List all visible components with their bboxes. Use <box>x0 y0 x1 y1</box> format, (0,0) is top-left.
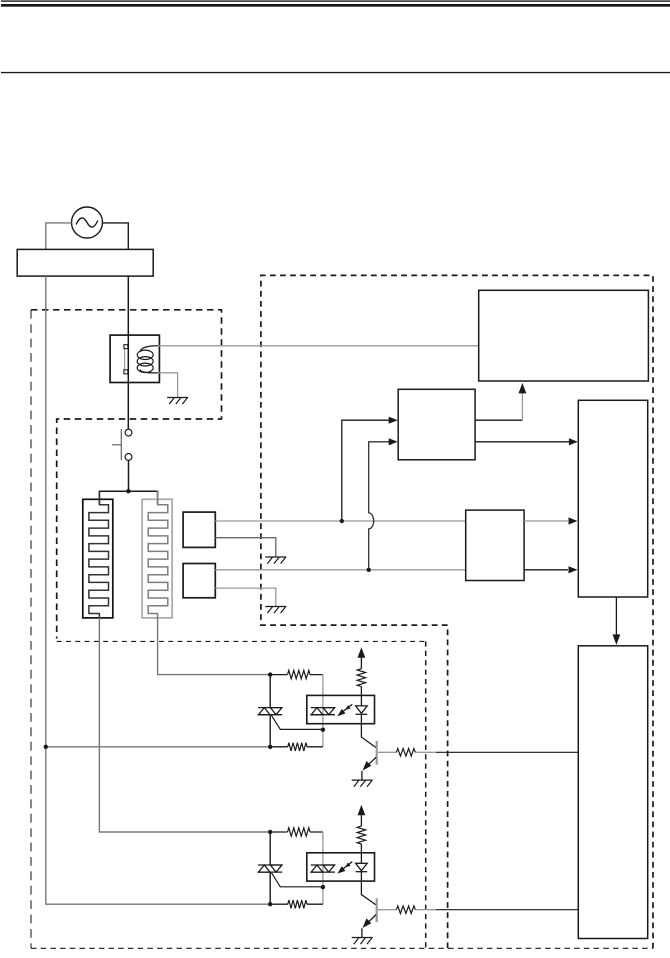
wire ADC out 2 <box>524 569 568 571</box>
optocoupler photo-triac (driver 1) <box>310 708 335 715</box>
ground TH1 <box>265 557 286 564</box>
wire ADC out 1 <box>524 520 568 522</box>
arrow ADC out 2 <box>569 566 578 573</box>
wire base to driver IC (driver 2) <box>436 909 578 911</box>
junction gate node (driver 2) <box>321 885 325 889</box>
dashed box: outer left edge <box>30 310 32 949</box>
arrow into comparator upper <box>389 417 398 424</box>
switch SW1 <box>112 429 132 460</box>
wire triac gate (driver 1) <box>272 715 323 729</box>
wire triac gate (driver 2) <box>272 873 323 887</box>
page header thick rule <box>1 4 670 7</box>
wire to gate resistor (driver 2) <box>270 831 323 833</box>
optocoupler LED (driver 1) <box>356 706 368 724</box>
optocoupler light arrows (driver 2) <box>337 862 352 874</box>
supply arrow (V+) (driver 2) <box>358 805 366 816</box>
ground relay coil <box>167 398 188 405</box>
wire TH2 signal <box>215 569 465 571</box>
transistor emitter (driver 1) <box>367 757 377 766</box>
dashed box: driver section top edge <box>57 640 426 642</box>
block: CPU <box>578 400 647 597</box>
wire comparator to power supply <box>475 419 522 421</box>
wire heater feed <box>99 491 157 504</box>
transistor Q2 base bar (driver 2) <box>376 898 378 922</box>
block: power supply unit <box>479 290 649 381</box>
junction TH2 branch <box>367 568 371 572</box>
resistor R24 (driver 2) <box>396 906 415 914</box>
junction triac bottom (driver 2) <box>268 902 272 906</box>
wire TH1 branch to comparator <box>342 420 389 521</box>
junction heater feed <box>126 489 130 493</box>
wire TH2 branch to comparator (with hop) <box>369 442 390 570</box>
wire live to relay <box>127 276 129 429</box>
resistor R11 (driver 1) <box>288 670 311 678</box>
resistor R13 (driver 1) <box>357 669 365 687</box>
AC input block <box>17 249 153 276</box>
wire CPU to driver IC <box>615 597 617 635</box>
block: driver IC <box>578 646 647 939</box>
wire to gate resistor (driver 1) <box>270 674 323 676</box>
optocoupler PC1 box (driver 1) <box>307 695 375 723</box>
wire relay coil to controller <box>158 345 479 347</box>
wire neutral rail <box>46 276 269 904</box>
wire gate return resistor (driver 1) <box>270 746 323 748</box>
heater element H1 <box>83 491 113 620</box>
wire relay coil to ground <box>158 373 178 398</box>
relay contact <box>124 345 128 374</box>
dashed box: control unit (right, L-shape) <box>261 275 653 948</box>
wire base to resistor (driver 1) <box>378 751 436 753</box>
wire switch to heaters <box>128 460 130 491</box>
arrow into CPU upper <box>569 438 578 445</box>
wire opto-triac leg (driver 2) <box>322 832 324 904</box>
transistor emitter (driver 2) <box>367 915 377 924</box>
wire AC right <box>103 223 129 250</box>
junction triac top (driver 2) <box>268 830 272 834</box>
wire comparator to CPU <box>475 441 569 443</box>
resistor R23 (driver 2) <box>357 826 365 844</box>
wire TH2 ground <box>215 588 275 606</box>
relay RY1 box <box>110 335 159 382</box>
ground TH2 <box>265 607 286 614</box>
junction triac top (driver 1) <box>268 672 272 676</box>
wire neutral to triac Q1 <box>46 746 269 748</box>
supply arrow (V+) (driver 1) <box>358 647 366 658</box>
wire comparator arrow riser <box>521 393 523 421</box>
wire heater to driver (driver 1) <box>158 618 269 675</box>
dashed box: bottom edge <box>31 947 653 949</box>
junction gate node (driver 1) <box>321 728 325 732</box>
junction TH1 branch <box>340 519 344 523</box>
wire resistor to LED (driver 1) <box>360 687 362 706</box>
ground transistor Q1 (driver 1) <box>352 780 373 787</box>
junction neutral rail <box>44 745 48 749</box>
optocoupler photo-triac (driver 2) <box>310 865 335 872</box>
wire base to resistor (driver 2) <box>378 909 436 911</box>
arrow into power supply <box>519 383 527 394</box>
wire TH1 signal <box>215 520 465 522</box>
arrow into driver IC <box>613 634 621 645</box>
wire LED to transistor (driver 1) <box>361 724 376 748</box>
block: comparator <box>398 389 475 460</box>
wire TH1 ground <box>215 538 275 557</box>
triac Q2 (driver 2) <box>269 832 271 904</box>
resistor R22 (driver 2) <box>288 900 307 908</box>
optocoupler PC2 box (driver 2) <box>307 853 375 881</box>
block: A/D converter <box>466 510 524 580</box>
wire LED to transistor (driver 2) <box>361 881 376 905</box>
sensor block TH2 <box>183 564 215 598</box>
wire opto-triac leg (driver 1) <box>322 675 324 747</box>
relay coil <box>137 346 158 373</box>
resistor R14 (driver 1) <box>396 749 415 757</box>
heater element H2 <box>142 491 172 620</box>
dashed box: driver section right edge <box>425 641 427 948</box>
wire resistor to LED (driver 2) <box>360 844 362 863</box>
arrow ADC out 1 <box>569 517 578 524</box>
resistor R21 (driver 2) <box>288 828 311 836</box>
arrow into comparator lower <box>389 438 398 445</box>
resistor R12 (driver 1) <box>288 743 307 751</box>
dashed box: relay + heater section outline <box>31 310 222 639</box>
wire gate return resistor (driver 2) <box>270 903 323 905</box>
AC source G1 <box>72 207 103 238</box>
optocoupler light arrows (driver 1) <box>337 704 352 716</box>
ground transistor Q2 (driver 2) <box>352 938 373 945</box>
wire heater to driver (driver 2) <box>99 618 268 833</box>
wire AC left <box>46 223 72 250</box>
triac Q1 (driver 1) <box>269 675 271 747</box>
page sub rule <box>1 72 670 73</box>
sensor block TH1 <box>183 512 215 547</box>
page header thin rule <box>1 0 670 1</box>
junction triac bottom (driver 1) <box>268 745 272 749</box>
transistor Q1 base bar (driver 1) <box>376 741 378 765</box>
wire base to driver IC (driver 1) <box>436 751 578 753</box>
optocoupler LED (driver 2) <box>356 863 368 881</box>
